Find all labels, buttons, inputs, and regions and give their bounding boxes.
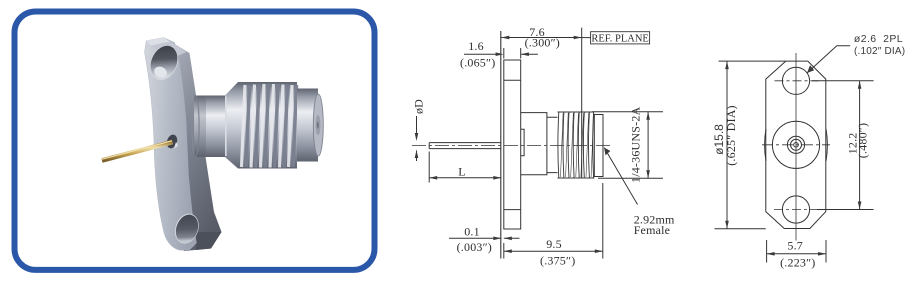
thread rib highlights <box>242 84 293 168</box>
dia15.8 extension bottom <box>715 228 766 230</box>
shoulder rim highlight <box>225 97 227 157</box>
thread section outline <box>558 112 595 178</box>
centerline top hole <box>775 80 819 82</box>
arrow 9.5 right <box>595 249 603 253</box>
mounting hole bottom <box>782 196 809 223</box>
arrow 1.6 right <box>521 52 529 56</box>
dim 12.2 line <box>859 81 861 210</box>
arrow 7.6 right <box>574 36 582 40</box>
body cylinder <box>521 113 547 175</box>
dim 7.6 line <box>501 37 581 39</box>
interface circle 3 <box>791 139 802 150</box>
neck left rim <box>192 96 199 157</box>
photo frame border <box>15 12 375 270</box>
dim 12.2 extension top <box>812 80 874 82</box>
svg-text:9.5: 9.5 <box>546 237 562 251</box>
pin <box>102 141 173 161</box>
dim 1.6 leader lines <box>464 53 538 55</box>
arrow thread top <box>646 112 650 120</box>
arrow L left <box>429 176 437 180</box>
flange outline <box>766 61 826 228</box>
svg-text:øD: øD <box>412 99 426 114</box>
front face socket <box>317 121 319 128</box>
top mounting hole <box>146 42 183 84</box>
ref plane box leader <box>582 37 591 39</box>
dim 9.5 right extension <box>602 183 604 259</box>
arrow 12.2 bottom <box>858 202 862 210</box>
dim phiD line <box>416 116 418 161</box>
thread crests <box>558 112 594 178</box>
arrow 9.5 left <box>504 249 512 253</box>
dim L extension <box>428 152 430 183</box>
shoulder cone <box>225 82 238 169</box>
top mounting hole rim <box>145 41 184 85</box>
svg-text:(.003″): (.003″) <box>457 240 492 254</box>
arrow 12.2 top <box>858 81 862 89</box>
arrow thread bottom <box>646 170 650 178</box>
arrow 5.7 left <box>767 252 775 256</box>
arrow phiD down <box>415 133 419 141</box>
leader dia2.6 <box>807 46 850 73</box>
front face <box>313 94 323 156</box>
interface circle outer <box>772 121 819 168</box>
interface circle center <box>794 143 799 148</box>
arrow 0.1 left <box>493 237 501 241</box>
interface circle 2 <box>787 136 804 153</box>
flange plate front face <box>145 38 197 251</box>
wire back-face line A <box>500 31 502 259</box>
front interface section <box>594 115 603 177</box>
relief groove <box>547 117 558 172</box>
dim 9.5 left extension <box>503 243 505 259</box>
flange side profile <box>504 60 521 229</box>
svg-text:1/4-36UNS-2A: 1/4-36UNS-2A <box>629 106 643 183</box>
dia15.8 dim line <box>726 61 728 229</box>
thread grooves <box>246 84 297 168</box>
bottom mounting hole rim <box>171 210 203 247</box>
flange top face <box>146 38 186 61</box>
svg-text:(.223″): (.223″) <box>780 256 815 270</box>
flange top edge highlight <box>146 38 170 46</box>
arrow L right <box>493 176 501 180</box>
flange slab side face <box>164 38 222 252</box>
arrow 0.1 right <box>504 237 512 241</box>
top hole inner reflection <box>152 65 168 80</box>
arrow dia2.6 leader <box>807 65 814 73</box>
svg-text:(.480″): (.480″) <box>856 123 870 158</box>
svg-text:(.300″): (.300″) <box>525 36 560 50</box>
dim 1.6 ticks <box>504 48 521 59</box>
arrowheads front view <box>725 61 861 256</box>
svg-text:(.102″ DIA): (.102″ DIA) <box>854 46 905 57</box>
thread dim line <box>647 112 649 178</box>
pin root glint <box>174 142 178 148</box>
arrow 2.92 leader <box>604 148 610 156</box>
vertical centerline <box>795 53 797 241</box>
flange front boss <box>521 129 524 156</box>
flange side bulge left <box>765 129 766 161</box>
centerline middle <box>762 144 830 146</box>
svg-text:1.6: 1.6 <box>468 39 484 53</box>
dim 9.5 line <box>504 250 603 252</box>
arrowheads side view <box>415 36 650 253</box>
front ring <box>297 89 318 162</box>
arrow 7.6 left <box>501 36 509 40</box>
dim 5.7 line <box>767 253 826 255</box>
arrow dia15.8 top <box>725 61 729 69</box>
arrow 5.7 right <box>818 252 826 256</box>
arrow dia15.8 bottom <box>725 221 729 229</box>
svg-text:REF. PLANE: REF. PLANE <box>591 33 649 44</box>
svg-text:(.625″ DIA): (.625″ DIA) <box>724 105 738 166</box>
svg-text:Female: Female <box>634 223 671 237</box>
dia15.8 extension top <box>719 60 786 62</box>
svg-text:5.7: 5.7 <box>787 239 803 253</box>
svg-text:0.1: 0.1 <box>464 225 480 239</box>
svg-text:(.065″): (.065″) <box>460 55 495 69</box>
dim 12.2 extension bottom <box>817 209 874 211</box>
flange chamfer line bottom <box>504 209 521 211</box>
flange slab bottom dark corner <box>196 232 222 250</box>
leader 2.92mm <box>604 148 637 205</box>
centerline axis <box>412 144 612 146</box>
dim 0.1 leaders <box>449 237 520 239</box>
svg-text:ø2.6 2PL: ø2.6 2PL <box>854 33 903 45</box>
body neck cylinder <box>194 96 225 158</box>
svg-text:L: L <box>458 165 466 179</box>
ref plane box <box>591 32 650 44</box>
flange side bulge right (cover) <box>826 129 827 161</box>
thread dim extensions <box>592 112 663 178</box>
flange chamfer line top <box>504 79 521 81</box>
neck shadow <box>194 96 206 158</box>
arrow phiD up <box>415 150 419 158</box>
dim 5.7 extensions <box>767 240 826 263</box>
arrow 1.6 left <box>496 52 504 56</box>
svg-text:(.375″): (.375″) <box>540 254 575 268</box>
pin root hole <box>165 133 179 149</box>
pin <box>429 143 501 149</box>
thread hatch <box>561 113 594 177</box>
dim L line <box>429 177 501 179</box>
front face bore <box>316 115 321 135</box>
thread block <box>238 82 297 169</box>
bottom mounting hole <box>172 211 202 246</box>
centerline bottom hole <box>774 209 818 211</box>
ref plane line <box>581 28 583 178</box>
mounting hole top <box>782 67 809 94</box>
